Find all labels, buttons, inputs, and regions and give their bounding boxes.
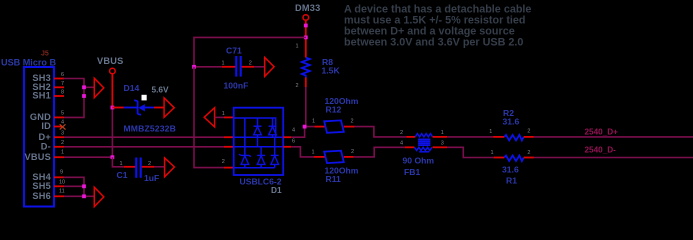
- svg-text:5: 5: [61, 111, 64, 117]
- pin D+: [38, 130, 64, 142]
- svg-text:D-: D-: [41, 142, 51, 152]
- wire D+ choke to R2: [433, 136, 494, 138]
- junction C71 branch: [304, 36, 308, 40]
- svg-text:1uF: 1uF: [144, 173, 159, 183]
- svg-text:ID: ID: [41, 121, 51, 131]
- capacitor C71: [222, 56, 252, 77]
- svg-text:2: 2: [222, 159, 225, 165]
- junction SH2: [82, 85, 86, 89]
- svg-text:31.6: 31.6: [503, 117, 520, 127]
- svg-text:2: 2: [527, 128, 530, 134]
- junction SH1: [82, 94, 86, 98]
- svg-text:D+: D+: [38, 132, 51, 142]
- wire VBUS from connector: [64, 156, 112, 158]
- svg-text:2: 2: [148, 161, 151, 167]
- svg-text:2: 2: [249, 61, 252, 67]
- arrow C1 right: [165, 158, 175, 177]
- junction SH6: [82, 194, 86, 198]
- svg-text:1: 1: [120, 161, 123, 167]
- connector J5: [24, 67, 54, 207]
- wire D- rail left: [64, 146, 234, 148]
- pin SH1: [32, 90, 64, 101]
- svg-text:SH1: SH1: [32, 91, 51, 101]
- svg-text:1: 1: [222, 61, 225, 67]
- svg-text:2: 2: [351, 118, 354, 124]
- svg-text:4: 4: [292, 128, 295, 134]
- svg-text:2540_D-: 2540_D-: [585, 146, 617, 155]
- IC internal diode top B: [269, 126, 277, 137]
- supply DM33: [295, 3, 321, 20]
- svg-text:USB Micro B: USB Micro B: [1, 58, 57, 68]
- svg-text:6: 6: [61, 72, 64, 78]
- IC internal bottom bus: [234, 167, 275, 169]
- svg-text:8: 8: [61, 90, 64, 96]
- wire VBUS vertical: [111, 74, 113, 157]
- no-connect cross on ID: [60, 124, 66, 129]
- svg-text:DM33: DM33: [295, 3, 321, 13]
- pin D-: [41, 140, 64, 152]
- svg-text:1: 1: [296, 44, 299, 50]
- svg-text:2: 2: [296, 83, 299, 89]
- junction VBUS rail: [111, 155, 115, 159]
- svg-text:1.5K: 1.5K: [322, 66, 341, 76]
- IC internal rail D-: [234, 146, 284, 148]
- svg-text:SH5: SH5: [32, 181, 51, 191]
- svg-text:R11: R11: [326, 174, 342, 184]
- svg-text:100nF: 100nF: [224, 81, 249, 91]
- svg-text:between 3.0V and 3.6V per USB: between 3.0V and 3.6V per USB 2.0: [344, 37, 523, 49]
- resistor R8: [296, 44, 310, 90]
- svg-text:C71: C71: [226, 46, 242, 56]
- svg-text:1: 1: [222, 111, 225, 117]
- wire C71 branch: [194, 37, 306, 66]
- zener D14: [112, 100, 164, 115]
- resistor R12: [312, 118, 355, 133]
- svg-text:VBUS: VBUS: [24, 152, 51, 162]
- svg-text:R1: R1: [506, 176, 517, 186]
- svg-text:6: 6: [292, 139, 295, 145]
- wire D- choke to R1: [433, 147, 494, 157]
- arrow C71 right: [265, 57, 274, 76]
- arrow IC pin1 left: [204, 108, 214, 127]
- resistor R2: [489, 128, 534, 140]
- common mode choke FB1: [414, 134, 432, 152]
- pin VBUS: [24, 150, 64, 162]
- svg-text:1: 1: [312, 150, 315, 156]
- wire arrow to IC pin1: [215, 111, 234, 118]
- IC internal diode bottom right: [271, 137, 279, 168]
- arrow shield top: [94, 78, 104, 97]
- svg-text:2: 2: [400, 130, 403, 136]
- note paragraph: [344, 4, 531, 49]
- wire pullup vertical: [305, 20, 307, 126]
- svg-text:4: 4: [400, 141, 403, 147]
- wire D- R11 to choke: [354, 147, 415, 157]
- junction pullup/D+: [303, 125, 307, 129]
- svg-text:9: 9: [60, 170, 63, 176]
- arrow shield bottom: [94, 187, 104, 206]
- IC internal rail D+: [234, 136, 284, 138]
- wire D+ R12 to choke: [355, 127, 416, 137]
- svg-text:VBUS: VBUS: [97, 56, 124, 66]
- svg-text:2540_D+: 2540_D+: [585, 128, 619, 137]
- junction C71: [192, 65, 196, 69]
- svg-text:2: 2: [351, 149, 354, 155]
- junction SH5: [82, 184, 86, 188]
- svg-text:J5: J5: [41, 51, 49, 58]
- svg-text:2: 2: [527, 150, 530, 156]
- capacitor C1: [120, 158, 165, 178]
- pin ID (no connect): [41, 120, 64, 132]
- svg-text:1: 1: [489, 129, 492, 135]
- svg-text:4: 4: [61, 120, 64, 126]
- wire shield top group SH3/SH2/SH1: [64, 79, 95, 118]
- wire GND net to IC pin2: [194, 67, 234, 168]
- wire D+ to right edge: [534, 136, 693, 138]
- resistor R11: [312, 149, 355, 163]
- svg-text:5.6V: 5.6V: [152, 84, 170, 94]
- arrow zener right: [164, 98, 174, 117]
- svg-text:1: 1: [312, 118, 315, 124]
- svg-text:D14: D14: [124, 83, 140, 93]
- pin SH6: [32, 189, 64, 202]
- IC internal top bus: [234, 118, 276, 155]
- wire C71 row: [194, 66, 265, 68]
- resistor R1: [491, 150, 534, 161]
- wire D- to right edge: [534, 157, 693, 159]
- svg-text:1: 1: [441, 130, 444, 136]
- svg-text:C1: C1: [117, 170, 128, 180]
- choke pin numbers: [400, 130, 444, 147]
- IC U: ESD array D1 USBLC6-2 box: [234, 108, 284, 175]
- svg-text:7: 7: [61, 81, 64, 87]
- svg-text:1: 1: [61, 150, 64, 156]
- IC internal diode bottom mid: [257, 147, 265, 168]
- pin SH5: [32, 179, 65, 191]
- svg-text:3: 3: [441, 141, 444, 147]
- svg-text:3: 3: [61, 130, 64, 136]
- pin SH3: [32, 72, 64, 83]
- svg-text:11: 11: [59, 189, 65, 195]
- pin SH4: [32, 170, 64, 183]
- svg-text:MMBZ5232B: MMBZ5232B: [124, 124, 176, 134]
- svg-text:D1: D1: [271, 185, 282, 195]
- supply VBUS: [97, 56, 124, 74]
- IC internal diode top A: [254, 126, 262, 147]
- junction below supply: [304, 24, 308, 28]
- IC internal zener bottom left: [239, 154, 251, 168]
- white artifact square: [142, 95, 147, 101]
- svg-text:FB1: FB1: [404, 167, 420, 177]
- svg-text:2: 2: [61, 140, 64, 146]
- pin GND: [30, 111, 64, 123]
- wire shield bottom group SH4/SH5/SH6: [64, 177, 95, 196]
- svg-text:1: 1: [491, 150, 494, 156]
- wire D- out of IC: [283, 139, 314, 157]
- svg-text:90 Ohm: 90 Ohm: [403, 156, 435, 166]
- svg-text:R12: R12: [326, 104, 342, 114]
- wire D+ out of IC: [283, 127, 314, 138]
- wire VBUS to C1: [112, 157, 123, 167]
- pin SH2: [32, 81, 64, 92]
- wire D+ rail left: [64, 136, 234, 138]
- svg-text:31.6: 31.6: [502, 165, 519, 175]
- svg-text:SH6: SH6: [32, 191, 51, 201]
- junction VBUS/zener: [111, 106, 115, 110]
- svg-text:10: 10: [59, 179, 65, 185]
